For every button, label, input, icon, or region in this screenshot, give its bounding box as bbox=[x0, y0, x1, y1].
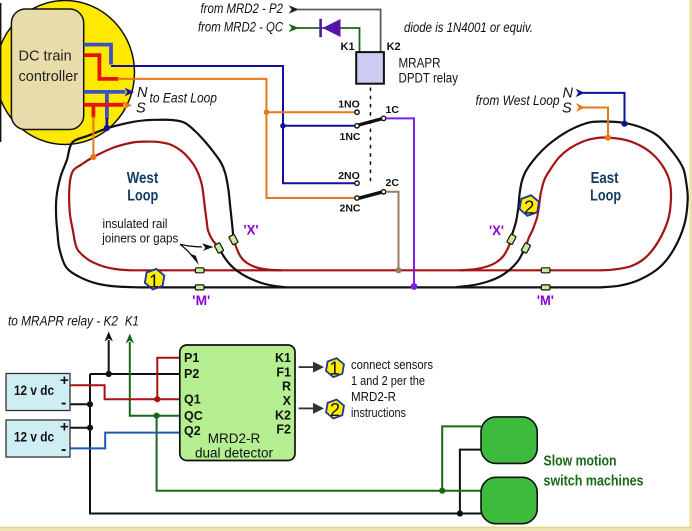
terminal 1NO bbox=[355, 110, 359, 114]
svg-text:Loop: Loop bbox=[127, 188, 158, 205]
wire: S to east inner rail bbox=[584, 108, 609, 137]
svg-text:East: East bbox=[591, 170, 619, 187]
svg-text:Slow motion: Slow motion bbox=[544, 454, 617, 470]
DC train controller label bbox=[19, 49, 79, 86]
track: west turnout black leg joining outer rail bbox=[219, 248, 286, 288]
label Slow motion switch machines bbox=[544, 454, 644, 490]
label MRD2-R dual detector bbox=[195, 431, 274, 461]
node: orange junction at relay contacts bbox=[264, 109, 270, 115]
svg-text:+: + bbox=[60, 419, 69, 436]
pin labels right bbox=[275, 351, 292, 437]
svg-text:12 v dc: 12 v dc bbox=[14, 430, 54, 445]
wire: controller N feed to West Loop bbox=[84, 90, 126, 94]
node: orange dot on west inner rail bbox=[90, 154, 96, 160]
svg-text:'X': 'X' bbox=[244, 222, 259, 237]
svg-text:Q2: Q2 bbox=[184, 424, 201, 438]
node: junction switch machine black bbox=[457, 510, 463, 516]
svg-text:2: 2 bbox=[330, 400, 340, 420]
insulated gap on west red descending curve bbox=[214, 243, 224, 254]
svg-text:1 and 2 per the: 1 and 2 per the bbox=[351, 373, 425, 388]
node: junction battery1 minus bbox=[87, 401, 93, 407]
arrowhead N east bbox=[576, 89, 586, 97]
terminal 2NC bbox=[355, 196, 359, 200]
svg-text:F2: F2 bbox=[276, 423, 291, 437]
terminal 2NO bbox=[355, 181, 359, 185]
svg-text:joiners or gaps: joiners or gaps bbox=[101, 231, 178, 246]
node: junction switch machine green bbox=[439, 488, 445, 494]
node: navy dot on west outer rail bbox=[104, 125, 110, 131]
svg-text:P2: P2 bbox=[184, 367, 199, 381]
arrow to sensor note 1 bbox=[299, 366, 314, 368]
label West Loop bbox=[127, 170, 159, 205]
terminal 1NC bbox=[355, 124, 359, 128]
svg-text:instructions: instructions bbox=[351, 405, 406, 420]
svg-text:dual detector: dual detector bbox=[195, 446, 274, 461]
wire: N drop to outer rail bbox=[105, 92, 109, 119]
svg-text:'M': 'M' bbox=[192, 293, 210, 308]
svg-text:R: R bbox=[282, 380, 291, 394]
svg-text:2NC: 2NC bbox=[339, 202, 360, 214]
svg-text:DPDT relay: DPDT relay bbox=[399, 70, 459, 86]
track: east turnout red leg joining inner rail bbox=[460, 239, 511, 270]
node: navy junction at relay contacts bbox=[280, 123, 286, 129]
svg-text:N: N bbox=[563, 85, 574, 101]
svg-text:S: S bbox=[562, 101, 572, 117]
sensor hexagon 2 on track bbox=[519, 194, 540, 218]
svg-text:to East Loop: to East Loop bbox=[150, 90, 218, 105]
svg-text:1C: 1C bbox=[386, 104, 400, 116]
pointer arrow to curve gap bbox=[180, 244, 202, 247]
border strip bottom bbox=[0, 527, 692, 531]
insulated gap on east inner straight bbox=[541, 268, 550, 273]
svg-text:-: - bbox=[61, 395, 66, 412]
arrow to sensor note 2 bbox=[299, 407, 314, 409]
controller clipped left edge line bbox=[0, 3, 2, 142]
svg-text:K1: K1 bbox=[341, 41, 355, 53]
svg-text:diode is 1N4001 or equiv.: diode is 1N4001 or equiv. bbox=[404, 20, 533, 35]
insulated gap on west inner straight bbox=[195, 268, 204, 273]
switch machine SM1 bbox=[481, 417, 537, 464]
switch arm 1 bbox=[359, 119, 382, 125]
svg-text:1NO: 1NO bbox=[338, 98, 360, 110]
pointer arrow to straight-track gap bbox=[180, 244, 193, 256]
svg-text:2NO: 2NO bbox=[338, 170, 360, 182]
arrowhead P2 feed bbox=[289, 5, 299, 13]
svg-text:to MRAPR relay - K2: to MRAPR relay - K2 bbox=[8, 314, 118, 329]
terminal 2C bbox=[381, 190, 385, 194]
svg-text:12 v dc: 12 v dc bbox=[14, 383, 54, 398]
svg-text:controller: controller bbox=[19, 69, 79, 85]
arrowhead QC feed bbox=[289, 24, 299, 32]
wire: navy stub to outer rail bbox=[106, 118, 109, 127]
arrowhead S (west) bbox=[123, 101, 133, 110]
track: east turnout black leg joining outer rail bbox=[456, 244, 527, 287]
track: inner (S) dark red rail, west loop to east loop bbox=[69, 137, 671, 270]
svg-text:'M': 'M' bbox=[537, 293, 554, 308]
svg-text:-: - bbox=[61, 441, 66, 458]
svg-text:K2: K2 bbox=[387, 41, 401, 53]
arrowhead up green K1 bbox=[126, 334, 134, 344]
svg-text:K1: K1 bbox=[275, 351, 291, 365]
node: junction battery2 plus bbox=[87, 425, 93, 431]
MRD2-R dual detector U2 bbox=[180, 345, 295, 461]
track: outer (N) black rail, west loop to east loop bbox=[56, 120, 688, 288]
svg-text:from MRD2 - P2: from MRD2 - P2 bbox=[201, 1, 284, 16]
svg-text:1: 1 bbox=[149, 270, 159, 291]
DC train controller box bbox=[11, 9, 83, 130]
battery B2 12 v dc bbox=[6, 420, 70, 457]
wire: S drop red bbox=[92, 105, 96, 118]
svg-text:MRD2-R: MRD2-R bbox=[208, 431, 261, 446]
node: navy dot on east outer rail bbox=[621, 121, 627, 127]
svg-text:1: 1 bbox=[329, 359, 339, 379]
wire: controller blue output to relay 1NC net bbox=[84, 45, 111, 65]
wire: black P2 net (battery minus, P2 pin, arrow to relay K2, bottom run) bbox=[70, 340, 481, 514]
label connect sensors note bbox=[351, 357, 433, 420]
svg-text:MRD2-R: MRD2-R bbox=[351, 389, 396, 404]
wire: QC feed to relay K1 bbox=[297, 28, 360, 52]
insulated gap on west black descending curve bbox=[229, 234, 239, 245]
node: tan dot on inner rail bbox=[395, 267, 401, 273]
arrowhead S east bbox=[576, 103, 586, 111]
svg-text:'X': 'X' bbox=[489, 223, 504, 238]
relay U1 MRAPR coil bbox=[356, 52, 384, 84]
arrowhead N (west) bbox=[125, 88, 135, 97]
svg-text:S: S bbox=[136, 100, 146, 116]
label MRAPR DPDT relay bbox=[399, 55, 459, 86]
DC train controller: yellow ellipse bbox=[0, 1, 135, 145]
svg-text:Loop: Loop bbox=[590, 188, 621, 205]
border strip right bbox=[689, 0, 692, 531]
svg-text:from MRD2 - QC: from MRD2 - QC bbox=[198, 19, 283, 34]
diode D1 (1N4001) cathode bar bbox=[319, 19, 322, 37]
pin labels left bbox=[184, 351, 203, 438]
wire: controller S feed bbox=[84, 103, 124, 107]
wire: purple 1C to outer rail bbox=[386, 118, 414, 285]
svg-text:1NC: 1NC bbox=[339, 131, 360, 143]
svg-text:West: West bbox=[127, 170, 159, 187]
svg-text:2C: 2C bbox=[386, 177, 400, 189]
wire: navy net controller to 1NC and 2NO bbox=[111, 66, 355, 183]
label East Loop bbox=[590, 170, 621, 205]
node: junction Q1/P1 bbox=[154, 396, 160, 402]
node: purple dot on outer rail bbox=[411, 283, 418, 290]
node: junction P2/arrow bbox=[106, 371, 112, 377]
svg-text:connect sensors: connect sensors bbox=[351, 357, 433, 372]
wire: orange net controller to 1NO and 2NC bbox=[118, 79, 355, 198]
legend hexagon 2 bbox=[325, 398, 345, 420]
svg-text:K2: K2 bbox=[275, 409, 291, 423]
svg-text:+: + bbox=[60, 372, 69, 389]
svg-text:K1: K1 bbox=[125, 314, 139, 329]
node: orange dot on east inner rail bbox=[605, 135, 611, 141]
sensor hexagon 1 on track bbox=[144, 267, 165, 291]
svg-text:insulated rail: insulated rail bbox=[103, 216, 168, 231]
insulated gap on east black descending curve bbox=[507, 234, 517, 245]
wire: S drop orange to inner rail bbox=[92, 117, 94, 157]
terminal 1C bbox=[381, 116, 385, 120]
wire: tan 2C to inner rail bbox=[386, 192, 399, 269]
wire: controller red output bbox=[84, 55, 119, 79]
insulated gap on west outer straight bbox=[195, 285, 204, 290]
svg-text:from West Loop: from West Loop bbox=[476, 93, 560, 108]
svg-text:N: N bbox=[137, 85, 148, 101]
svg-text:X: X bbox=[283, 394, 292, 408]
node: junction QC bbox=[154, 413, 160, 419]
insulated gap on east outer straight bbox=[541, 285, 550, 290]
switch machine SM2 bbox=[481, 477, 537, 523]
wire: N to east outer rail bbox=[583, 93, 625, 122]
arrowhead up to relay K2 bbox=[105, 332, 113, 342]
svg-text:P1: P1 bbox=[184, 351, 199, 365]
switch arm 2 bbox=[359, 192, 382, 198]
wire: green QC net (K1 arrow, QC pin, switch machines run) bbox=[130, 342, 481, 491]
svg-text:Q1: Q1 bbox=[184, 393, 201, 407]
battery B1 12 v dc bbox=[6, 374, 70, 411]
svg-text:F1: F1 bbox=[276, 366, 291, 380]
svg-text:2: 2 bbox=[524, 197, 534, 218]
wire: P2 feed to relay K2 bbox=[297, 10, 381, 53]
svg-text:QC: QC bbox=[184, 409, 203, 423]
legend hexagon 1 bbox=[325, 357, 345, 379]
relay actuator dashed line bbox=[370, 88, 372, 187]
svg-text:switch machines: switch machines bbox=[544, 474, 644, 490]
svg-text:DC train: DC train bbox=[19, 49, 72, 65]
track: west turnout red leg joining inner rail bbox=[234, 240, 283, 271]
svg-text:MRAPR: MRAPR bbox=[399, 55, 441, 71]
insulated gap on east red descending curve bbox=[521, 243, 531, 254]
diode D1 triangle bbox=[323, 19, 341, 37]
wire: blue battery2 minus to Q2 bbox=[70, 433, 180, 449]
wire: red battery1 plus to Q1 and P1 bbox=[70, 358, 180, 400]
label insulated rail joiners or gaps bbox=[101, 216, 178, 246]
